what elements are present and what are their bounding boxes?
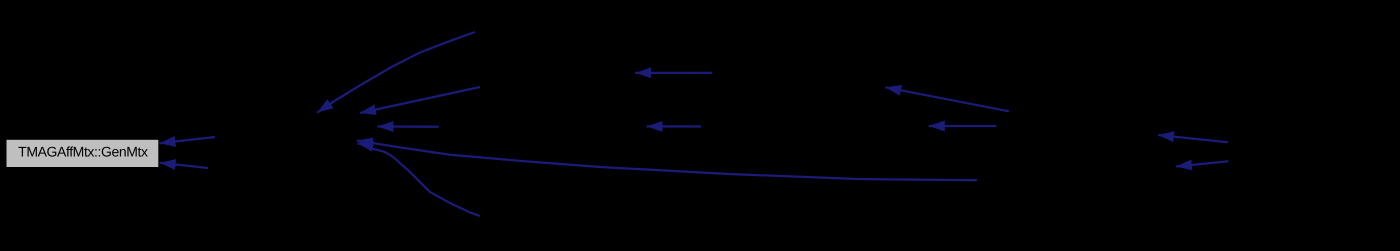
svg-text:TMAGAffMtx::GenMtx: TMAGAffMtx::GenMtx — [18, 143, 148, 159]
